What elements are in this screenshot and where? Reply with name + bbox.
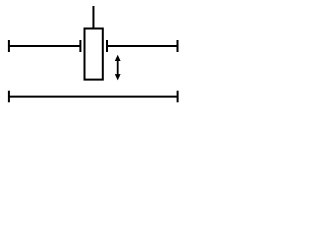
wire (bottom rail) — [9, 96, 178, 98]
terminal tick right (top rail) — [177, 40, 179, 52]
terminal tick left (top rail) — [8, 40, 10, 52]
motion arrow (double-headed, vertical) — [115, 55, 121, 81]
terminal tick left (bottom rail) — [8, 91, 10, 103]
resistor body (slider block) — [85, 29, 103, 80]
terminal tick at left contact of slider body — [79, 40, 81, 52]
wire (top rail, left segment) — [9, 45, 81, 47]
wire (top lead from slider body) — [92, 6, 94, 29]
wire (top rail, right segment) — [107, 45, 178, 47]
terminal tick at right contact of slider body — [106, 40, 108, 52]
terminal tick right (bottom rail) — [177, 91, 179, 103]
